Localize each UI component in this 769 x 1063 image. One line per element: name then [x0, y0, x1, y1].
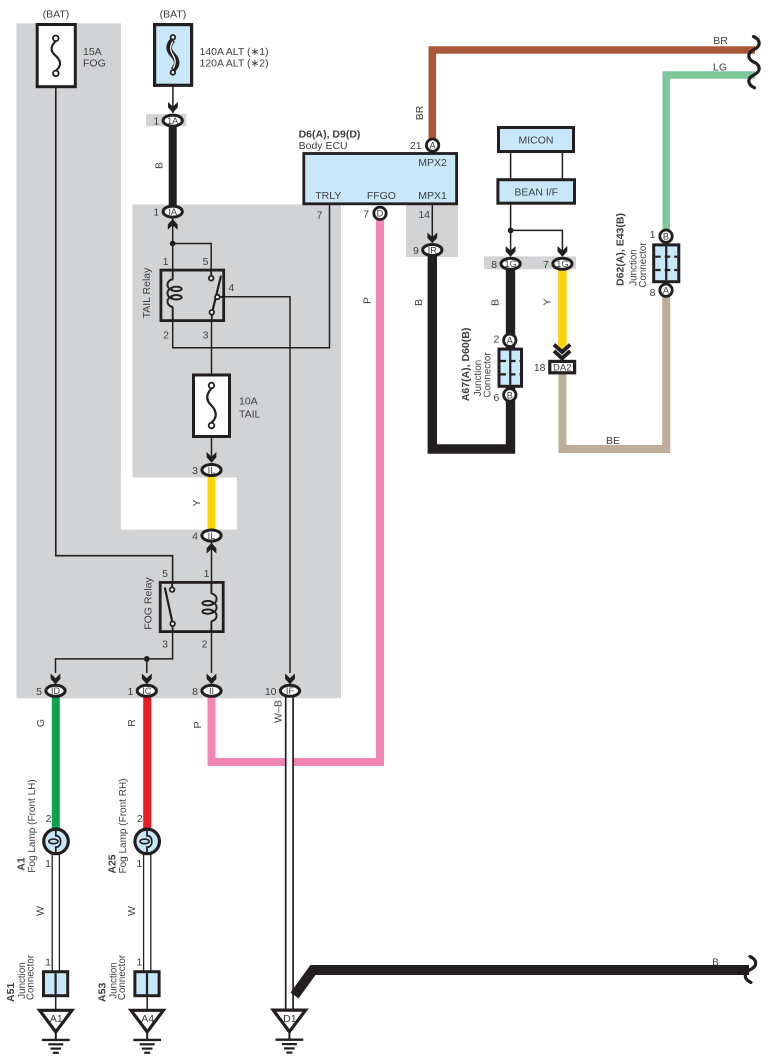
wire 15A FOG fuse to FOG relay pin 5 — [56, 87, 173, 582]
arrow into ID — [51, 674, 61, 685]
svg-text:A: A — [507, 336, 514, 346]
svg-text:W: W — [126, 906, 138, 916]
wire TAIL relay pin 2 to TRLY pin 7 — [173, 205, 330, 348]
connector 18 DA2 — [550, 361, 575, 372]
svg-text:LG: LG — [713, 61, 727, 73]
wire LG from D62 to break — [666, 75, 755, 232]
wire B thick ground bus to break — [295, 970, 750, 996]
gray strip connectors 1G — [484, 256, 576, 269]
svg-text:A: A — [430, 141, 437, 151]
fuse 15A FOG — [37, 25, 75, 87]
junction connector A67(A), D60(B) — [499, 349, 522, 386]
svg-text:1: 1 — [45, 858, 51, 870]
svg-text:D1: D1 — [283, 1013, 297, 1025]
pin 8 circle A on D62 — [650, 284, 673, 299]
wire Y yellow 1G to DA2 — [558, 269, 566, 350]
break symbol LG wire — [749, 62, 759, 88]
connector 1 1A — [153, 115, 182, 128]
svg-text:IC: IC — [142, 686, 152, 696]
svg-text:D6(A), D9(D): D6(A), D9(D) — [299, 129, 361, 141]
wire BE tan DA2 to D62 — [562, 295, 666, 449]
svg-text:1: 1 — [650, 229, 656, 241]
wire G green ID to fog lamp LH — [52, 696, 60, 830]
svg-text:6: 6 — [493, 392, 499, 404]
svg-text:D: D — [377, 209, 384, 219]
ground D1 — [273, 1010, 305, 1053]
fuse 10A TAIL — [194, 375, 230, 437]
FOG relay switch — [171, 582, 173, 587]
svg-text:Y: Y — [542, 298, 554, 305]
svg-text:A51: A51 — [5, 983, 17, 1002]
arrow into IC — [142, 674, 152, 685]
svg-text:(BAT): (BAT) — [160, 9, 187, 21]
wire junction to connector IC — [146, 659, 148, 673]
svg-text:B: B — [490, 299, 502, 306]
svg-text:MICON: MICON — [519, 135, 554, 147]
break symbol B wire — [745, 957, 755, 983]
gray strip connector 1A — [146, 114, 186, 126]
svg-text:A1: A1 — [16, 857, 28, 871]
svg-text:B: B — [712, 958, 719, 969]
svg-text:FOG: FOG — [83, 58, 106, 70]
svg-text:Connector: Connector — [26, 954, 37, 1000]
connector 1 IA — [153, 206, 182, 219]
svg-text:18: 18 — [534, 362, 546, 374]
junction dot above IC — [144, 656, 150, 662]
gray strip connector IR — [406, 205, 458, 258]
TAIL Relay box — [161, 270, 224, 321]
svg-text:P: P — [192, 721, 204, 728]
svg-text:W: W — [35, 906, 47, 916]
svg-text:A25: A25 — [107, 854, 119, 873]
svg-text:7: 7 — [363, 208, 369, 220]
svg-text:1: 1 — [153, 207, 159, 219]
svg-text:Body ECU: Body ECU — [299, 140, 348, 152]
wire B thick 1A to IA — [169, 124, 177, 206]
wire junction to TAIL relay pin 5 — [173, 244, 212, 271]
svg-text:A4: A4 — [141, 1013, 154, 1025]
junction connector A53 — [135, 972, 159, 996]
svg-text:140A ALT (∗1): 140A ALT (∗1) — [200, 46, 269, 58]
svg-text:2: 2 — [202, 639, 208, 651]
svg-text:TAIL Relay: TAIL Relay — [141, 267, 153, 319]
TAIL relay coil — [167, 270, 181, 322]
svg-text:A1: A1 — [50, 1013, 63, 1025]
svg-text:P: P — [362, 297, 374, 304]
svg-text:1: 1 — [136, 957, 142, 969]
svg-text:Connector: Connector — [482, 352, 493, 398]
svg-text:8: 8 — [650, 287, 656, 299]
wire MICON to BEAN I/F left — [510, 152, 512, 179]
svg-text:9: 9 — [413, 245, 419, 257]
svg-text:FFGO: FFGO — [367, 190, 396, 202]
junction connector D62(A), E43(B) — [654, 245, 679, 282]
pin 2 circle A on A67 — [493, 333, 516, 346]
svg-text:R: R — [126, 719, 138, 727]
connector 10 IF — [265, 685, 300, 698]
wire MPX1 pin 14 to connector IR — [431, 205, 433, 242]
svg-text:IF: IF — [286, 686, 295, 696]
svg-text:B: B — [413, 299, 425, 306]
connector 9 IR — [413, 245, 442, 258]
svg-text:B: B — [663, 232, 669, 242]
junction connector A51 — [44, 972, 68, 996]
svg-text:15A: 15A — [83, 46, 102, 58]
svg-text:1: 1 — [163, 256, 169, 268]
svg-text:IL: IL — [208, 531, 216, 541]
junction dot above TAIL relay — [170, 241, 176, 247]
wire B thick IR to 1G via junction connector — [432, 254, 510, 449]
svg-text:A: A — [663, 286, 670, 296]
BEAN I/F box — [498, 180, 575, 204]
svg-text:2: 2 — [46, 813, 52, 825]
gray band left (15A FOG column) — [17, 23, 122, 698]
pin 21 circle A on MPX2 — [410, 139, 439, 152]
svg-text:DA2: DA2 — [553, 363, 571, 374]
FOG relay coil — [202, 582, 216, 633]
connector 4 IL — [192, 530, 221, 543]
svg-text:W–B: W–B — [273, 700, 285, 723]
wire Y yellow between IL connectors — [208, 476, 216, 530]
svg-text:4: 4 — [229, 282, 235, 294]
svg-text:5: 5 — [162, 568, 168, 580]
svg-text:BR: BR — [713, 35, 728, 47]
svg-text:14: 14 — [418, 209, 430, 221]
svg-text:IR: IR — [428, 245, 438, 255]
white notch around Y wire — [121, 478, 237, 530]
wire junction to TAIL relay pin 1 — [172, 244, 174, 271]
wire BR from MPX2 to break — [432, 50, 755, 140]
fuse 140A/120A ALT fusible link — [155, 25, 192, 86]
svg-text:1: 1 — [204, 568, 210, 580]
svg-text:1: 1 — [153, 116, 159, 128]
wire TAIL relay pin 3 to 10A TAIL fuse — [211, 322, 213, 374]
wire FOG relay pin 2 to connector II — [211, 633, 213, 673]
MICON box — [499, 128, 574, 152]
wire branch to connector 7 1G — [511, 230, 563, 255]
svg-text:D62(A), E43(B): D62(A), E43(B) — [615, 213, 627, 286]
pin 6 circle B on A67 — [493, 389, 516, 404]
wire MICON to BEAN I/F right — [561, 152, 563, 179]
wire P pink FFGO to II — [212, 220, 381, 762]
wire below IA to junction — [172, 218, 174, 244]
wire A53 to ground A4 — [146, 997, 148, 1010]
svg-text:Fog Lamp (Front RH): Fog Lamp (Front RH) — [118, 778, 129, 873]
svg-text:Fog Lamp (Front LH): Fog Lamp (Front LH) — [27, 779, 38, 872]
svg-text:II: II — [209, 686, 214, 696]
connector 8 1G — [491, 258, 520, 271]
wire W-B from IF to ground D1 — [286, 696, 293, 1009]
arrow into IR — [427, 233, 437, 244]
svg-text:5: 5 — [36, 686, 42, 698]
wire ALT fuse to connector 1A — [172, 74, 174, 113]
arrow into 7 1G — [558, 246, 568, 257]
svg-text:8: 8 — [491, 259, 497, 271]
ground A4 — [131, 1010, 163, 1053]
svg-text:Connector: Connector — [117, 954, 128, 1000]
fog lamp front LH bulb — [44, 829, 69, 854]
svg-text:3: 3 — [192, 465, 198, 477]
wire R red IC to fog lamp RH — [143, 696, 151, 830]
svg-text:1: 1 — [127, 686, 133, 698]
wire 10A TAIL fuse to connector 3 IL — [211, 437, 213, 461]
svg-text:2: 2 — [163, 330, 169, 342]
break symbol BR wire — [749, 37, 759, 63]
svg-text:1A: 1A — [167, 116, 179, 126]
arrow into 3 IL — [207, 452, 217, 463]
connector 8 II — [192, 685, 221, 698]
arrow into II — [207, 674, 217, 685]
svg-text:A67(A), D60(B): A67(A), D60(B) — [460, 328, 472, 402]
svg-text:FOG Relay: FOG Relay — [143, 576, 155, 629]
svg-text:G: G — [35, 719, 47, 727]
wire A51 to ground A1 — [55, 997, 57, 1010]
TAIL relay switch — [210, 270, 212, 276]
svg-text:A53: A53 — [97, 983, 109, 1002]
wire connector 4 IL to FOG relay pin 1 — [211, 543, 213, 583]
FOG Relay box — [160, 582, 223, 631]
svg-text:1G: 1G — [556, 259, 568, 269]
wire BEAN I/F to connector 8 1G — [510, 204, 512, 255]
svg-text:10A: 10A — [239, 396, 258, 408]
ground A1 — [40, 1010, 72, 1053]
connector 3 IL — [192, 465, 221, 478]
svg-text:BEAN I/F: BEAN I/F — [514, 187, 558, 199]
svg-text:Connector: Connector — [638, 242, 649, 288]
gray main relay region — [133, 205, 342, 699]
double chevron arrow into DA2 — [554, 345, 570, 359]
svg-text:BE: BE — [606, 435, 620, 447]
svg-text:1: 1 — [136, 858, 142, 870]
svg-text:10: 10 — [265, 686, 277, 698]
arrow into 8 1G — [506, 246, 516, 257]
junction dot below BEAN I/F — [508, 228, 514, 234]
svg-text:IL: IL — [208, 465, 216, 475]
svg-text:120A ALT (∗2): 120A ALT (∗2) — [200, 58, 269, 70]
connector 1 IC — [127, 685, 156, 698]
arrow into IF — [285, 674, 295, 685]
svg-text:4: 4 — [192, 531, 198, 543]
arrow into 4 IL — [207, 543, 217, 554]
svg-text:7: 7 — [317, 210, 323, 222]
svg-text:8: 8 — [192, 686, 198, 698]
svg-text:2: 2 — [137, 813, 143, 825]
arrow into IA — [168, 219, 178, 230]
pin 1 circle B on D62 — [650, 229, 673, 242]
svg-text:B: B — [154, 162, 166, 169]
svg-text:1: 1 — [45, 957, 51, 969]
svg-text:ID: ID — [51, 686, 61, 696]
wire W fog lamp LH to A51 — [51, 854, 53, 971]
svg-text:3: 3 — [203, 330, 209, 342]
svg-text:B: B — [507, 390, 513, 400]
wire W fog lamp RH to A53 — [143, 854, 145, 971]
arrow into 1A — [168, 102, 178, 113]
fog lamp front RH bulb — [135, 829, 160, 854]
svg-text:TAIL: TAIL — [239, 409, 261, 421]
pin 7 circle D on FFGO — [363, 207, 386, 220]
wire FOG relay pin 3 to connectors ID and IC — [56, 633, 173, 673]
svg-text:TRLY: TRLY — [315, 190, 341, 202]
gray bridge below Y-wire notch — [121, 530, 134, 699]
svg-text:7: 7 — [543, 259, 549, 271]
svg-text:BR: BR — [414, 105, 426, 120]
svg-text:IA: IA — [168, 207, 178, 217]
svg-text:5: 5 — [203, 256, 209, 268]
connector 7 1G — [543, 258, 572, 271]
svg-text:(BAT): (BAT) — [43, 9, 70, 21]
connector 5 ID — [36, 685, 65, 698]
svg-text:Y: Y — [191, 499, 203, 506]
svg-text:1G: 1G — [504, 259, 516, 269]
svg-text:MPX1: MPX1 — [418, 190, 447, 202]
svg-text:3: 3 — [162, 639, 168, 651]
wire TAIL relay pin 4 to connector IF — [224, 297, 290, 673]
svg-text:MPX2: MPX2 — [418, 157, 447, 169]
svg-text:2: 2 — [493, 333, 499, 345]
Body ECU box — [304, 154, 457, 204]
svg-text:21: 21 — [410, 140, 422, 152]
